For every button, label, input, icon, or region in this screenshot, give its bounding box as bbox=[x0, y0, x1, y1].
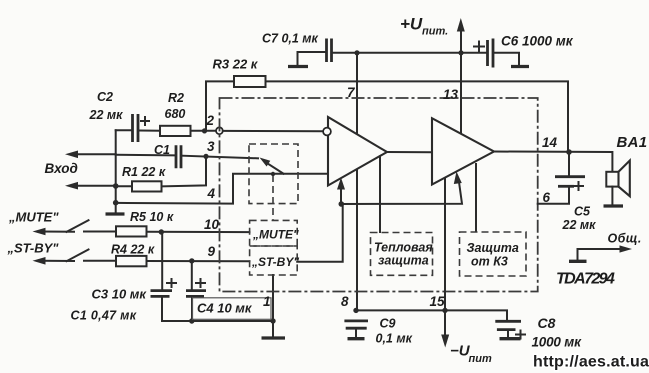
svg-text:6: 6 bbox=[543, 190, 551, 205]
svg-text:C1: C1 bbox=[154, 143, 170, 157]
svg-text:Вход: Вход bbox=[45, 161, 78, 176]
svg-text:C7 0,1 мк: C7 0,1 мк bbox=[262, 32, 319, 46]
svg-text:R4 22 к: R4 22 к bbox=[111, 243, 155, 257]
svg-text:0,1 мк: 0,1 мк bbox=[376, 332, 413, 346]
svg-text:R2: R2 bbox=[168, 91, 184, 105]
svg-text:9: 9 bbox=[208, 244, 216, 259]
svg-text:Защита: Защита bbox=[467, 241, 519, 255]
svg-text:15: 15 bbox=[430, 294, 446, 309]
svg-text:от К3: от К3 bbox=[471, 255, 508, 269]
svg-text:680: 680 bbox=[165, 107, 186, 121]
svg-text:14: 14 bbox=[542, 135, 558, 150]
svg-text:2: 2 bbox=[206, 113, 215, 128]
svg-text:C9: C9 bbox=[380, 317, 396, 331]
svg-text:1000 мк: 1000 мк bbox=[532, 335, 583, 350]
svg-text:Общ.: Общ. bbox=[608, 232, 642, 246]
svg-text:„MUTE": „MUTE" bbox=[8, 210, 59, 225]
svg-text:3: 3 bbox=[207, 139, 215, 154]
svg-text:R5 10 к: R5 10 к bbox=[130, 210, 174, 224]
svg-text:C2: C2 bbox=[97, 90, 113, 104]
svg-text:C6 1000 мк: C6 1000 мк bbox=[501, 34, 574, 49]
svg-text:R1 22 к: R1 22 к bbox=[122, 165, 166, 179]
svg-text:пит: пит bbox=[469, 353, 492, 365]
svg-text:22 мк: 22 мк bbox=[562, 218, 597, 232]
svg-text:защита: защита bbox=[378, 254, 429, 268]
svg-text:BA1: BA1 bbox=[617, 134, 648, 151]
svg-text:+U: +U bbox=[400, 15, 423, 34]
svg-text:8: 8 bbox=[341, 294, 349, 309]
svg-text:Тепловая: Тепловая bbox=[374, 241, 433, 255]
svg-text:R3 22 к: R3 22 к bbox=[213, 57, 259, 72]
svg-text:C8: C8 bbox=[538, 315, 556, 331]
svg-text:C3 10 мк: C3 10 мк bbox=[92, 287, 148, 302]
svg-text:„ST-BY": „ST-BY" bbox=[251, 255, 299, 269]
svg-text:„MUTE": „MUTE" bbox=[252, 228, 299, 242]
svg-text:22 мк: 22 мк bbox=[89, 108, 124, 122]
svg-text:C5: C5 bbox=[574, 205, 591, 219]
svg-text:TDA7294: TDA7294 bbox=[556, 271, 615, 288]
svg-text:пит.: пит. bbox=[422, 26, 448, 38]
svg-text:10: 10 bbox=[204, 217, 220, 232]
svg-text:4: 4 bbox=[207, 186, 216, 201]
svg-text:http://aes.at.ua: http://aes.at.ua bbox=[533, 354, 649, 371]
svg-text:„ST-BY": „ST-BY" bbox=[7, 241, 60, 256]
svg-text:13: 13 bbox=[443, 87, 459, 102]
svg-text:1: 1 bbox=[263, 294, 271, 309]
svg-text:C1 0,47 мк: C1 0,47 мк bbox=[71, 309, 137, 323]
svg-text:C4 10 мк: C4 10 мк bbox=[197, 301, 253, 316]
